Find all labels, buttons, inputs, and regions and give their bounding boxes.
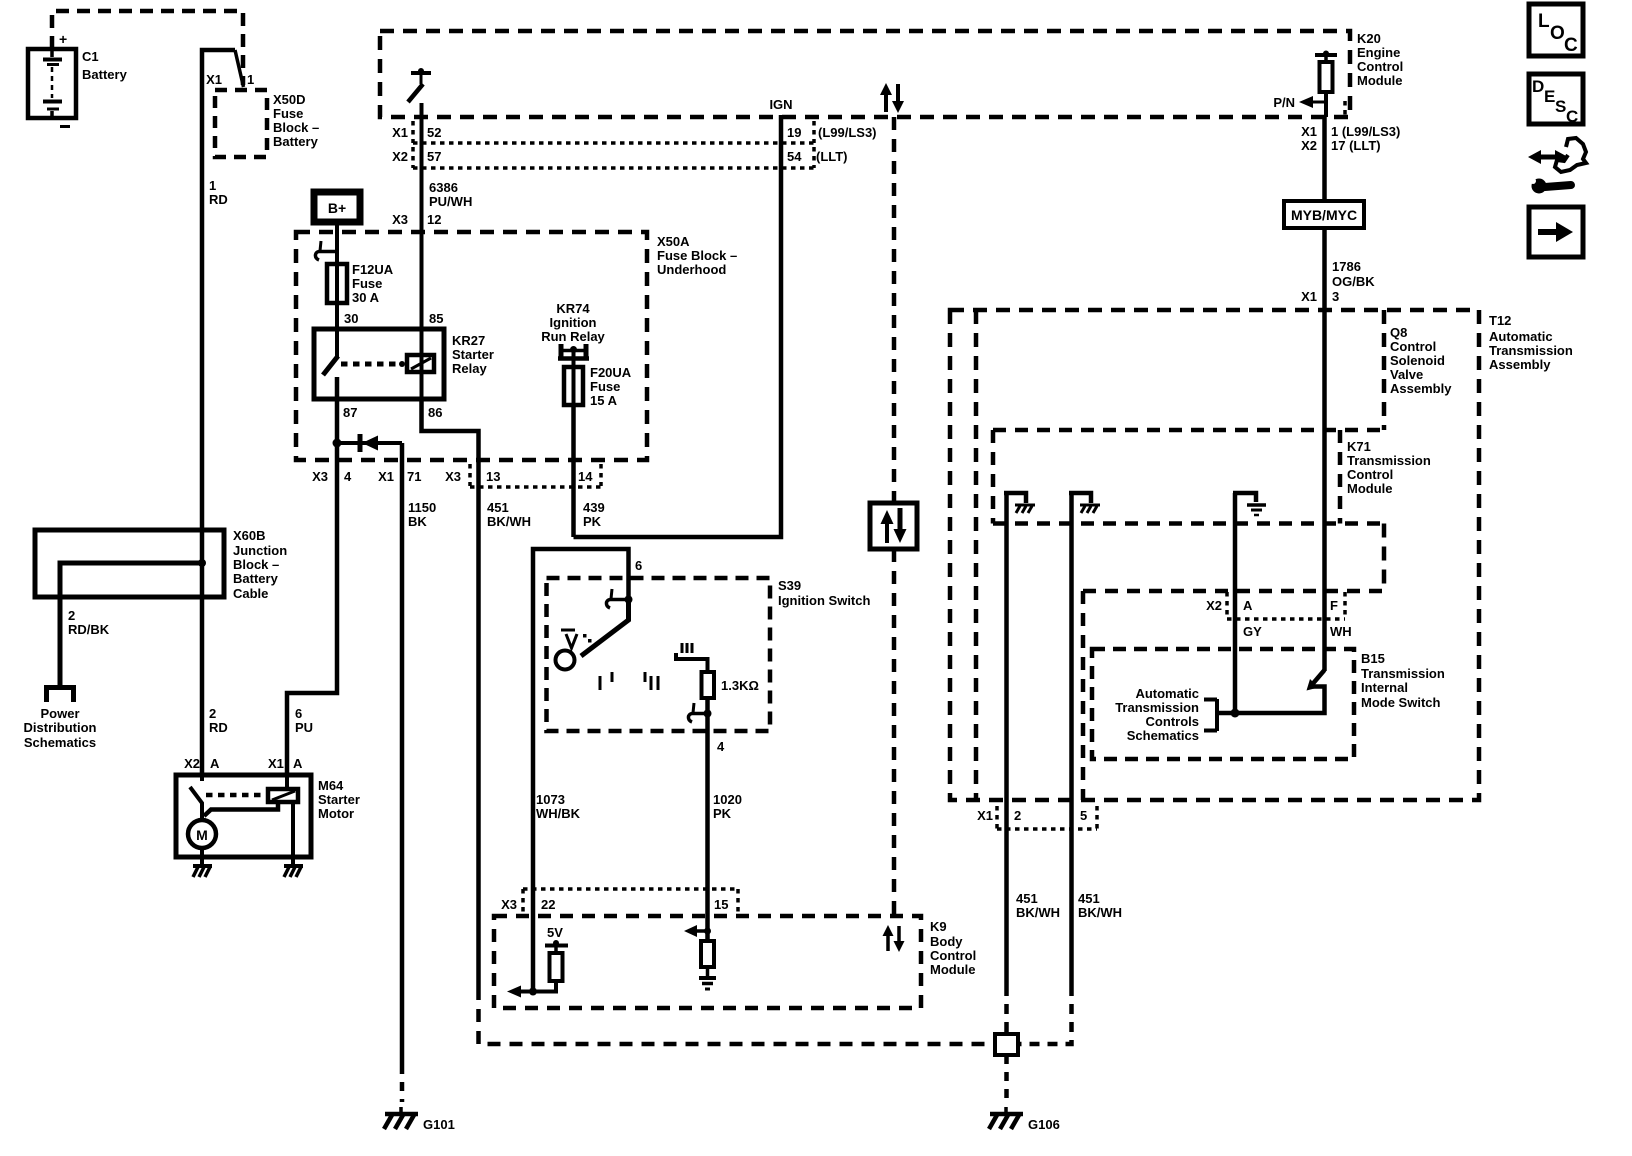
svg-text:X1: X1: [977, 808, 993, 823]
svg-text:Relay: Relay: [452, 361, 487, 376]
label 451 BK/WH: [487, 500, 531, 529]
svg-text:RD: RD: [209, 720, 228, 735]
svg-text:L: L: [1538, 11, 1550, 32]
automatic transmission assembly T12 (dashed box): [950, 310, 1573, 800]
svg-text:G101: G101: [423, 1117, 455, 1132]
svg-text:Body: Body: [930, 934, 963, 949]
diode branch to 71: [337, 434, 402, 452]
svg-text:Fuse: Fuse: [352, 276, 382, 291]
5V supply in K9: [545, 925, 568, 953]
svg-text:A: A: [293, 756, 303, 771]
svg-text:Block –: Block –: [273, 120, 319, 135]
wire mode switch common: [1217, 687, 1325, 714]
svg-text:Transmission: Transmission: [1361, 666, 1445, 681]
pull-down resistor in K9: [701, 941, 714, 967]
wire relay 87 down (6 PU run): [287, 377, 337, 775]
motor ground: [193, 848, 212, 877]
svg-text:451: 451: [1016, 891, 1038, 906]
svg-text:P/N: P/N: [1273, 95, 1295, 110]
svg-text:Engine: Engine: [1357, 45, 1400, 60]
svg-text:Module: Module: [1357, 73, 1403, 88]
junction block X60B: [35, 528, 287, 601]
splice drop from pin 5 (dashed): [1019, 986, 1072, 1044]
svg-text:Power: Power: [40, 706, 79, 721]
icon diagnostic tools: [1528, 138, 1586, 194]
label 6386 PU/WH: [429, 180, 472, 209]
pin X1 3: [1301, 289, 1339, 304]
junction pin 22: [529, 988, 537, 996]
svg-text:X3: X3: [392, 212, 408, 227]
connector pin X1 1 (diagonal): [206, 50, 254, 87]
svg-text:KR27: KR27: [452, 333, 485, 348]
svg-text:30 A: 30 A: [352, 290, 380, 305]
earth ground in K71: [1233, 493, 1266, 521]
body control module K9 (dashed box): [494, 916, 976, 1008]
icon LOC: [1529, 4, 1583, 56]
svg-text:OG/BK: OG/BK: [1332, 274, 1375, 289]
svg-text:Fuse: Fuse: [590, 379, 620, 394]
svg-text:19: 19: [787, 125, 801, 140]
connector pins below X50A: [312, 469, 593, 484]
svg-text:X2: X2: [392, 149, 408, 164]
internal ground in K9: [699, 967, 716, 989]
svg-text:Schematics: Schematics: [1127, 728, 1199, 743]
wire GY (pin A): [1233, 521, 1238, 713]
svg-text:6: 6: [295, 706, 302, 721]
svg-text:2: 2: [68, 608, 75, 623]
svg-text:K20: K20: [1357, 31, 1381, 46]
svg-text:WH: WH: [1330, 624, 1352, 639]
dashed drop to G106: [1004, 1055, 1009, 1102]
svg-text:F: F: [1330, 598, 1338, 613]
svg-text:87: 87: [343, 405, 357, 420]
svg-text:X3: X3: [501, 897, 517, 912]
svg-text:Fuse Block –: Fuse Block –: [657, 248, 737, 263]
svg-text:B+: B+: [328, 200, 346, 216]
svg-text:71: 71: [407, 469, 421, 484]
wire 1 RD: [202, 50, 235, 775]
svg-text:X2: X2: [184, 756, 200, 771]
svg-text:Valve: Valve: [1390, 367, 1423, 382]
svg-text:5: 5: [1080, 808, 1087, 823]
wire 1020 PK: [705, 698, 710, 941]
switch rotor blade: [581, 599, 629, 656]
wire 451 BK/WH right (pin 5): [1069, 521, 1074, 986]
svg-text:Junction: Junction: [233, 543, 287, 558]
svg-text:X1: X1: [206, 72, 222, 87]
svg-text:K71: K71: [1347, 439, 1371, 454]
svg-text:X3: X3: [312, 469, 328, 484]
svg-text:E: E: [1544, 87, 1555, 106]
svg-text:Ignition Switch: Ignition Switch: [778, 593, 870, 608]
svg-text:451: 451: [1078, 891, 1100, 906]
wire 6 PU into coil: [285, 775, 289, 789]
svg-text:Fuse: Fuse: [273, 106, 303, 121]
svg-text:5V: 5V: [547, 925, 563, 940]
svg-text:C: C: [1566, 107, 1578, 126]
svg-text:Control: Control: [1357, 59, 1403, 74]
svg-text:1: 1: [247, 72, 254, 87]
svg-text:X50A: X50A: [657, 234, 690, 249]
svg-text:1.3KΩ: 1.3KΩ: [721, 678, 759, 693]
wire 85 through coil: [420, 357, 424, 431]
svg-text:22: 22: [541, 897, 555, 912]
svg-text:Assembly: Assembly: [1489, 357, 1551, 372]
svg-text:BK/WH: BK/WH: [1016, 905, 1060, 920]
svg-text:BK: BK: [408, 514, 427, 529]
bidirectional arrows at K20: [880, 83, 904, 113]
svg-text:4: 4: [717, 739, 725, 754]
solenoid coil M64: [268, 789, 298, 802]
position mark III: [682, 643, 692, 653]
svg-text:Control: Control: [1347, 467, 1393, 482]
svg-text:1786: 1786: [1332, 259, 1361, 274]
svg-text:Block –: Block –: [233, 557, 279, 572]
label GY / WH: [1243, 624, 1352, 639]
wire 1150 BK: [400, 443, 405, 1065]
svg-text:Underhood: Underhood: [657, 262, 726, 277]
svg-text:T12: T12: [1489, 313, 1511, 328]
pin 19/54 wire stub: [1343, 101, 1347, 117]
pin X3 12: [392, 212, 441, 227]
wire IGN 439 trunk: [574, 115, 782, 537]
starter motor M64: [176, 775, 360, 857]
svg-text:30: 30: [344, 311, 358, 326]
svg-text:Starter: Starter: [318, 792, 360, 807]
svg-text:C: C: [1564, 35, 1578, 56]
signal arrow at pin 22: [507, 986, 521, 998]
svg-text:Q8: Q8: [1390, 325, 1407, 340]
svg-text:O: O: [1550, 23, 1565, 44]
label 2 RD: [209, 706, 228, 735]
fuse F12UA 30 A: [327, 262, 394, 305]
wire 86 to 13 (451 BK/WH): [422, 399, 479, 987]
svg-text:RD/BK: RD/BK: [68, 622, 110, 637]
svg-text:6: 6: [635, 558, 642, 573]
coil return to motor node: [204, 802, 278, 816]
svg-text:2: 2: [209, 706, 216, 721]
svg-text:Controls: Controls: [1146, 714, 1199, 729]
svg-text:Solenoid: Solenoid: [1390, 353, 1445, 368]
splice S-point to G106 (dashed drops): [1004, 986, 1009, 1034]
svg-text:M: M: [196, 827, 208, 843]
connector box 13/14 (dotted): [470, 464, 601, 487]
svg-text:86: 86: [428, 405, 442, 420]
svg-text:PK: PK: [713, 806, 732, 821]
label 1 RD: [209, 178, 228, 207]
wire battery positive dashed to X50D: [52, 11, 243, 85]
relay actuating link (dotted): [341, 361, 405, 367]
svg-text:3: 3: [1332, 289, 1339, 304]
svg-text:1: 1: [209, 178, 216, 193]
label 1073 WH/BK: [536, 792, 581, 821]
serial data link symbol (boxed arrows): [870, 503, 917, 549]
svg-text:A: A: [1243, 598, 1253, 613]
motor M: [188, 820, 216, 848]
svg-text:X3: X3: [445, 469, 461, 484]
ignition switch S39 (dashed box): [547, 578, 871, 731]
svg-text:S39: S39: [778, 578, 801, 593]
svg-text:Control: Control: [930, 948, 976, 963]
svg-text:PU/WH: PU/WH: [429, 194, 472, 209]
wire 1786 OG/BK: [1322, 228, 1327, 671]
icon DESC: [1529, 74, 1583, 126]
svg-text:1020: 1020: [713, 792, 742, 807]
resistor 1.3K: [702, 672, 759, 698]
svg-text:PK: PK: [583, 514, 602, 529]
mode switch blade: [1307, 670, 1325, 691]
relay contact blade: [323, 356, 338, 375]
svg-text:MYB/MYC: MYB/MYC: [1291, 207, 1357, 223]
ECM internal switch (crank output): [408, 68, 431, 102]
svg-text:X1: X1: [268, 756, 284, 771]
wire B+ feed: [335, 225, 339, 264]
node B+: [314, 192, 360, 222]
svg-text:+: +: [59, 31, 67, 47]
node P/N arrow: [1273, 95, 1326, 110]
wire 451 BK/WH left (pin 2): [1004, 521, 1009, 986]
svg-text:Control: Control: [1390, 339, 1436, 354]
wire 439 PK: [571, 405, 576, 537]
label 1150 BK: [408, 500, 436, 529]
svg-text:F12UA: F12UA: [352, 262, 394, 277]
wire ignition status (dashed): [892, 117, 897, 503]
off-page connector to Power Distribution Schematics: [24, 687, 97, 750]
svg-text:Schematics: Schematics: [24, 735, 96, 750]
take-out clip at B+ feed: [315, 241, 337, 260]
svg-text:Automatic: Automatic: [1135, 686, 1199, 701]
svg-text:X1: X1: [1301, 124, 1317, 139]
svg-text:57: 57: [427, 149, 441, 164]
position mark IV: [561, 630, 592, 648]
svg-text:Motor: Motor: [318, 806, 354, 821]
label 1786 OG/BK: [1332, 259, 1375, 289]
wire ignition status lower (dashed): [892, 549, 897, 916]
take-out clip at pin 4: [688, 703, 711, 722]
junction node: [198, 559, 206, 567]
connector box X1 2/5 (dotted): [977, 806, 1097, 829]
ignition run relay KR74 label: [541, 301, 605, 344]
relay KR74 contact feed: [558, 344, 589, 367]
ground 1 in K71: [1004, 493, 1035, 521]
svg-text:14: 14: [578, 469, 593, 484]
ground 2 in K71: [1069, 493, 1100, 521]
svg-text:(L99/LS3): (L99/LS3): [818, 125, 877, 140]
svg-text:Module: Module: [1347, 481, 1393, 496]
svg-text:17 (LLT): 17 (LLT): [1331, 138, 1381, 153]
ECM internal P/N sense element: [1315, 51, 1337, 118]
svg-text:4: 4: [344, 469, 352, 484]
signal arrow at pin 15: [684, 925, 711, 937]
svg-text:451: 451: [487, 500, 509, 515]
position mark I: [600, 672, 612, 690]
svg-text:Assembly: Assembly: [1390, 381, 1452, 396]
svg-text:1 (L99/LS3): 1 (L99/LS3): [1331, 124, 1400, 139]
svg-text:15: 15: [714, 897, 728, 912]
wire 2 RD/BK bus inside X60B: [60, 563, 202, 687]
svg-text:2: 2: [1014, 808, 1021, 823]
switch rotor: [556, 651, 575, 670]
ground G106: [989, 1107, 1060, 1132]
svg-text:M64: M64: [318, 778, 344, 793]
svg-text:Transmission: Transmission: [1489, 343, 1573, 358]
label 439 PK: [583, 500, 605, 529]
junction at 87: [333, 439, 342, 448]
svg-text:Battery: Battery: [273, 134, 319, 149]
svg-text:(LLT): (LLT): [816, 149, 848, 164]
svg-text:IGN: IGN: [769, 97, 792, 112]
svg-text:BK/WH: BK/WH: [487, 514, 531, 529]
starter relay KR27: [314, 329, 494, 399]
solenoid link (dashed): [206, 793, 265, 798]
svg-text:D: D: [1532, 77, 1544, 96]
svg-text:G106: G106: [1028, 1117, 1060, 1132]
svg-text:1150: 1150: [408, 500, 436, 515]
svg-text:BK/WH: BK/WH: [1078, 905, 1122, 920]
wire 5V to pin 22 node: [521, 981, 556, 992]
svg-text:12: 12: [427, 212, 441, 227]
solenoid ground: [284, 802, 303, 877]
svg-text:Internal: Internal: [1361, 680, 1408, 695]
svg-text:1073: 1073: [536, 792, 565, 807]
wire 1073 WH/BK: [533, 549, 629, 992]
svg-text:X2: X2: [1301, 138, 1317, 153]
bidirectional arrows in K9: [883, 925, 905, 952]
svg-text:Transmission: Transmission: [1115, 700, 1199, 715]
svg-text:6386: 6386: [429, 180, 458, 195]
svg-text:F20UA: F20UA: [590, 365, 632, 380]
svg-text:X2: X2: [1206, 598, 1222, 613]
transmission control module K71 (dashed box): [993, 430, 1431, 524]
svg-text:B15: B15: [1361, 651, 1385, 666]
svg-text:KR74: KR74: [556, 301, 590, 316]
relay coil KR27: [407, 355, 434, 372]
svg-text:RD: RD: [209, 192, 228, 207]
pins X2 A / X1 A: [184, 756, 303, 771]
connector row X1 52 / 19 (dotted): [392, 121, 876, 143]
svg-text:Ignition: Ignition: [550, 315, 597, 330]
label 2 RD/BK: [68, 608, 110, 637]
svg-text:Battery: Battery: [233, 571, 279, 586]
svg-text:C1: C1: [82, 49, 99, 64]
take-out clip at pin 6: [606, 589, 632, 608]
svg-text:S: S: [1555, 97, 1566, 116]
svg-text:GY: GY: [1243, 624, 1262, 639]
wire fuse to relay 30: [335, 303, 339, 357]
svg-text:Transmission: Transmission: [1347, 453, 1431, 468]
fuse F20UA 15 A: [564, 365, 632, 408]
svg-text:X50D: X50D: [273, 92, 306, 107]
engine control module K20 (dashed box): [380, 31, 1403, 117]
svg-text:WH/BK: WH/BK: [536, 806, 581, 821]
svg-text:54: 54: [787, 149, 802, 164]
svg-text:PU: PU: [295, 720, 313, 735]
junction A/common: [1231, 709, 1240, 718]
fuse block X50D (dashed box): [215, 90, 319, 157]
wire 1786 upper: [1322, 117, 1327, 201]
fuse block X50A underhood (dashed box): [296, 232, 737, 460]
svg-text:439: 439: [583, 500, 605, 515]
solenoid contact blade in M64: [190, 775, 202, 820]
icon go-to arrow: [1529, 207, 1583, 257]
label 6 PU: [295, 706, 313, 735]
battery C1: [28, 31, 128, 127]
ground G101: [384, 1107, 455, 1132]
control solenoid valve assembly Q8 (dashed): [976, 310, 1452, 800]
svg-text:15 A: 15 A: [590, 393, 618, 408]
svg-text:X1: X1: [1301, 289, 1317, 304]
svg-text:Run Relay: Run Relay: [541, 329, 605, 344]
label 1020 PK: [713, 792, 742, 821]
transmission internal mode switch B15 (dashed box): [1092, 649, 1445, 759]
svg-text:Module: Module: [930, 962, 976, 977]
svg-text:X1: X1: [378, 469, 394, 484]
position mark II: [645, 672, 658, 690]
wire 6386 PU/WH: [420, 103, 424, 357]
svg-text:Starter: Starter: [452, 347, 494, 362]
svg-text:X1: X1: [392, 125, 408, 140]
pin rows X1/X2 at ECM right: [1301, 124, 1400, 153]
svg-text:13: 13: [486, 469, 500, 484]
svg-text:Cable: Cable: [233, 586, 268, 601]
wire III to resistor: [676, 653, 708, 672]
label 451 BK/WH (pin 2): [1016, 891, 1060, 920]
svg-text:52: 52: [427, 125, 441, 140]
svg-text:Mode Switch: Mode Switch: [1361, 695, 1441, 710]
svg-text:A: A: [210, 756, 220, 771]
svg-text:Battery: Battery: [82, 67, 128, 82]
splice connector block: [995, 1034, 1018, 1055]
splice run to G106 (dashed): [479, 987, 994, 1044]
label 451 BK/WH (pin 5): [1078, 891, 1122, 920]
connector box X2 A/F (dotted): [1206, 592, 1345, 619]
svg-text:85: 85: [429, 311, 443, 326]
link bracket to transmission controls schematics: [1115, 686, 1217, 743]
connector box X3 22/15 (dotted): [501, 889, 738, 914]
connector row X2 57 / 54 (dotted): [392, 147, 847, 168]
svg-text:Automatic: Automatic: [1489, 329, 1553, 344]
svg-text:Distribution: Distribution: [24, 720, 97, 735]
svg-text:K9: K9: [930, 919, 947, 934]
svg-text:X60B: X60B: [233, 528, 266, 543]
splice pack MYB/MYC: [1284, 201, 1364, 228]
pull-up resistor in K9: [550, 953, 563, 981]
Q8 lower boundary (dashed): [1083, 591, 1384, 800]
